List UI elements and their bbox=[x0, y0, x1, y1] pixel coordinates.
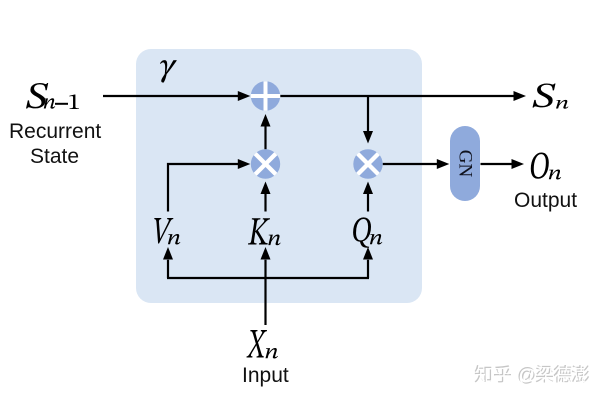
svg-text:Input: Input bbox=[242, 364, 289, 387]
wire bus right stub up to Q_n bbox=[363, 247, 373, 278]
label S_{n-1} bbox=[26, 83, 79, 109]
svg-text:State: State bbox=[30, 145, 79, 168]
svg-text:GN: GN bbox=[455, 150, 476, 178]
wire plus-node to S_n bbox=[280, 91, 526, 101]
Q-multiply node (circled x) bbox=[353, 149, 382, 178]
watermark zhihu bbox=[475, 365, 591, 387]
label V_n bbox=[154, 218, 180, 245]
wire Q-multiply node to GN bbox=[383, 159, 450, 169]
plus node (circled +) bbox=[250, 80, 281, 112]
wire S_{n-1} to plus-node bbox=[103, 91, 250, 101]
wire GN to O_n bbox=[481, 159, 525, 169]
wire X_n up to K_n bbox=[261, 247, 271, 325]
wire bus horizontal bbox=[167, 277, 369, 279]
svg-text:@: @ bbox=[518, 366, 537, 387]
label Q_n bbox=[353, 217, 382, 247]
wire V_n up then right into K-multiply node bbox=[168, 159, 250, 212]
label Output bbox=[514, 189, 577, 212]
svg-text:Recurrent: Recurrent bbox=[9, 120, 101, 143]
GN block (group norm) bbox=[450, 126, 480, 201]
label gamma bbox=[160, 60, 177, 83]
label Recurrent State bbox=[9, 120, 101, 168]
label X_n bbox=[246, 330, 277, 359]
wire Q_n up into Q-multiply node bbox=[363, 182, 373, 212]
label O_n bbox=[531, 153, 561, 180]
wire branch down to Q-multiply node bbox=[363, 96, 373, 144]
label S_n bbox=[533, 83, 569, 108]
panel (cell body) bbox=[136, 49, 422, 303]
label Input bbox=[242, 364, 289, 387]
wire K_n up into K-multiply node bbox=[261, 182, 271, 212]
K-multiply node (circled x) bbox=[251, 149, 280, 178]
svg-text:Output: Output bbox=[514, 189, 577, 212]
wire bus from X_n: left stub up to V_n bbox=[163, 247, 173, 278]
wire K-multiply node up to plus-node bbox=[261, 114, 271, 149]
label K_n bbox=[248, 218, 281, 245]
